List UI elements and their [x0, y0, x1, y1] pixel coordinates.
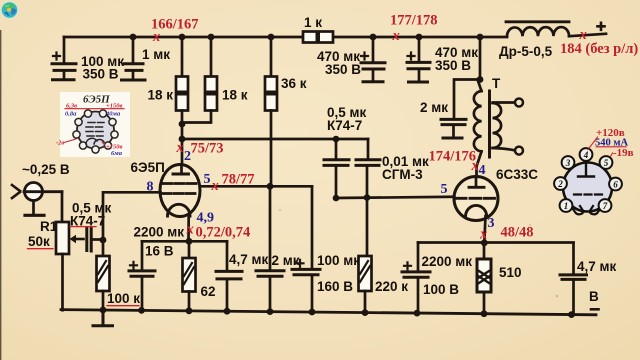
svg-text:220 к: 220 к — [375, 279, 408, 294]
svg-text:1 к: 1 к — [304, 15, 322, 30]
wire anode node to coupling caps — [182, 138, 368, 141]
svg-text:x: x — [579, 27, 587, 43]
svg-text:6ма: 6ма — [111, 150, 123, 157]
page left edge shadow line — [0, 30, 1, 360]
node bottom rail dots — [100, 307, 575, 318]
svg-text:100 В: 100 В — [423, 282, 459, 297]
svg-text:3: 3 — [565, 158, 571, 168]
svg-text:78/77: 78/77 — [222, 172, 255, 188]
svg-text:-2в: -2в — [56, 140, 64, 147]
node transformer B+ junction — [477, 76, 484, 83]
svg-text:4,7 мк: 4,7 мк — [229, 252, 269, 267]
svg-text:5: 5 — [204, 172, 211, 187]
wire grid line to 6С33С — [336, 197, 454, 198]
svg-text:100 мк: 100 мк — [317, 253, 360, 268]
svg-text:4: 4 — [479, 163, 486, 178]
socket circle 6С33С — [563, 163, 612, 212]
svg-text:x: x — [152, 29, 160, 45]
svg-text:2 мк: 2 мк — [272, 253, 300, 268]
svg-text:2200 мк: 2200 мк — [422, 254, 473, 269]
svg-text:18 к: 18 к — [148, 88, 174, 103]
wire input to grid drop — [61, 192, 64, 222]
transformer core — [488, 91, 491, 157]
capacitor 100мк 160В — [292, 186, 320, 312]
node grid junction — [364, 194, 371, 201]
svg-text:7: 7 — [603, 201, 608, 211]
coupling capacitor 0,5мк К74-7 — [324, 139, 349, 198]
wire left drop to C1 — [63, 37, 66, 62]
node grid of 6Э5П — [100, 237, 107, 244]
svg-text:2 мк: 2 мк — [420, 100, 448, 115]
svg-text:~0,25 В: ~0,25 В — [22, 162, 70, 177]
logo globe icon — [1, 1, 19, 19]
socket pins — [554, 148, 622, 212]
svg-text:160 В: 160 В — [317, 279, 353, 294]
wire cathode line 6С33С — [418, 241, 574, 244]
coupling capacitor 0,01мк СГМ-3 — [356, 139, 380, 256]
capacitor 2200мк 100В — [402, 243, 430, 314]
wire cathode line — [142, 240, 227, 243]
wire top rail left segment — [64, 36, 303, 39]
svg-text:К74-7: К74-7 — [327, 118, 362, 133]
svg-text:0,8а: 0,8а — [65, 111, 77, 118]
svg-text:2: 2 — [557, 179, 563, 189]
node coupling cap top — [333, 136, 340, 143]
svg-text:x: x — [211, 178, 219, 194]
svg-text:6,3в: 6,3в — [66, 103, 77, 110]
svg-text:184 (без р/л): 184 (без р/л) — [560, 41, 638, 57]
svg-text:350 В: 350 В — [325, 62, 361, 77]
node anode junction — [179, 136, 186, 143]
svg-text:5: 5 — [604, 158, 609, 168]
capacitor C1 100мк 350В — [52, 53, 76, 80]
svg-text:x: x — [392, 28, 400, 44]
svg-text:x: x — [186, 222, 194, 238]
svg-text:6: 6 — [613, 180, 618, 190]
svg-text:36 к: 36 к — [281, 76, 307, 91]
output + terminal — [598, 23, 605, 30]
svg-text:62: 62 — [201, 284, 216, 299]
svg-text:4,7 мк: 4,7 мк — [577, 259, 617, 274]
ground symbol — [93, 311, 113, 326]
svg-text:18 к: 18 к — [222, 88, 248, 103]
svg-text:0,72/0,74: 0,72/0,74 — [196, 225, 251, 241]
capacitor 2200мк 16В — [129, 241, 155, 310]
capacitor 470мк 350В (first) — [361, 37, 385, 82]
capacitor 0,5мк К74-7 (input) — [87, 228, 103, 251]
resistor 100к — [97, 256, 110, 310]
resistor 18к (first) — [176, 37, 188, 139]
svg-text:510: 510 — [499, 265, 522, 280]
transformer T primary — [474, 80, 482, 179]
wire grid drop / pin 8 line — [103, 192, 161, 256]
svg-text:16 В: 16 В — [145, 244, 174, 259]
wire pin5 screen line — [200, 185, 312, 188]
svg-text:75/73: 75/73 — [191, 141, 224, 157]
capacitor 470мк 350В (second) — [407, 37, 430, 82]
resistor 220к — [359, 256, 372, 313]
socket internal electrodes — [86, 123, 104, 145]
svg-text:+150в: +150в — [106, 103, 122, 110]
wire B+ drop to transformer — [479, 37, 482, 80]
transformer T secondary — [493, 99, 524, 155]
node cathode junction 6С33С — [481, 239, 488, 246]
capacitor 4,7мк (output) — [560, 243, 587, 315]
svg-text:50к: 50к — [28, 234, 50, 249]
svg-text:4: 4 — [583, 150, 589, 160]
svg-text:x: x — [471, 158, 479, 174]
svg-text:Т: Т — [492, 76, 501, 91]
capacitor 2мк (screen) — [256, 186, 284, 312]
svg-text:1: 1 — [564, 201, 569, 211]
socket heater line red — [65, 108, 124, 110]
svg-text:5: 5 — [441, 182, 448, 197]
svg-text:R1: R1 — [40, 219, 58, 234]
socket anode electrode — [578, 161, 594, 177]
capacitor C2 1мк — [122, 37, 146, 80]
socket grid dashes — [574, 193, 602, 195]
svg-text:100 к: 100 к — [107, 291, 140, 306]
resistor 62 — [183, 241, 196, 310]
svg-text:x: x — [479, 227, 487, 243]
socket card background — [60, 92, 130, 157]
node cathode junction — [186, 238, 193, 245]
inductor Др-5-0,5 choke — [506, 22, 569, 37]
svg-text:Др-5-0,5: Др-5-0,5 — [499, 44, 553, 59]
socket heater arcs — [568, 201, 584, 214]
svg-text:2200 мк: 2200 мк — [134, 225, 185, 240]
input connector — [12, 183, 62, 216]
svg-text:1 мк: 1 мк — [142, 47, 170, 62]
svg-text:-19в: -19в — [613, 147, 634, 159]
svg-text:177/178: 177/178 — [390, 13, 438, 29]
svg-text:4,9: 4,9 — [197, 211, 215, 226]
node coupling cap bottom — [333, 195, 340, 202]
resistor 1к (horizontal) — [303, 32, 333, 43]
svg-text:x: x — [176, 140, 184, 156]
node 18k parallel junction — [179, 121, 186, 128]
node rail junction dots — [130, 34, 484, 41]
tube U1 6Э5П — [160, 165, 200, 242]
svg-text:3: 3 — [488, 216, 495, 231]
svg-text:В: В — [589, 289, 599, 304]
svg-text:350 В: 350 В — [435, 58, 471, 73]
wire choke output segment — [569, 34, 606, 36]
resistor 510 — [477, 243, 491, 314]
wire bottom ground rail — [61, 310, 596, 315]
svg-text:48/48: 48/48 — [501, 225, 534, 241]
capacitor 2мк (transformer snubber) — [441, 80, 480, 139]
wire anode node down to tube pin2 — [181, 139, 184, 166]
svg-text:6Э5П: 6Э5П — [131, 160, 165, 175]
resistor 18к (second) — [184, 37, 218, 123]
node screen junction — [267, 183, 274, 190]
resistor 36к — [265, 37, 277, 186]
svg-text:6С33С: 6С33С — [496, 167, 538, 182]
socket circle 6Э5П — [77, 112, 114, 149]
wire top rail middle segment — [333, 36, 507, 39]
svg-text:174/176: 174/176 — [429, 149, 477, 165]
tube U2 6С33С — [454, 177, 498, 244]
potentiometer R1 50к — [56, 222, 84, 310]
svg-text:350 В: 350 В — [83, 67, 119, 82]
capacitor 4,7мк (cathode) — [216, 241, 242, 311]
svg-text:СГМ-3: СГМ-3 — [382, 167, 423, 182]
